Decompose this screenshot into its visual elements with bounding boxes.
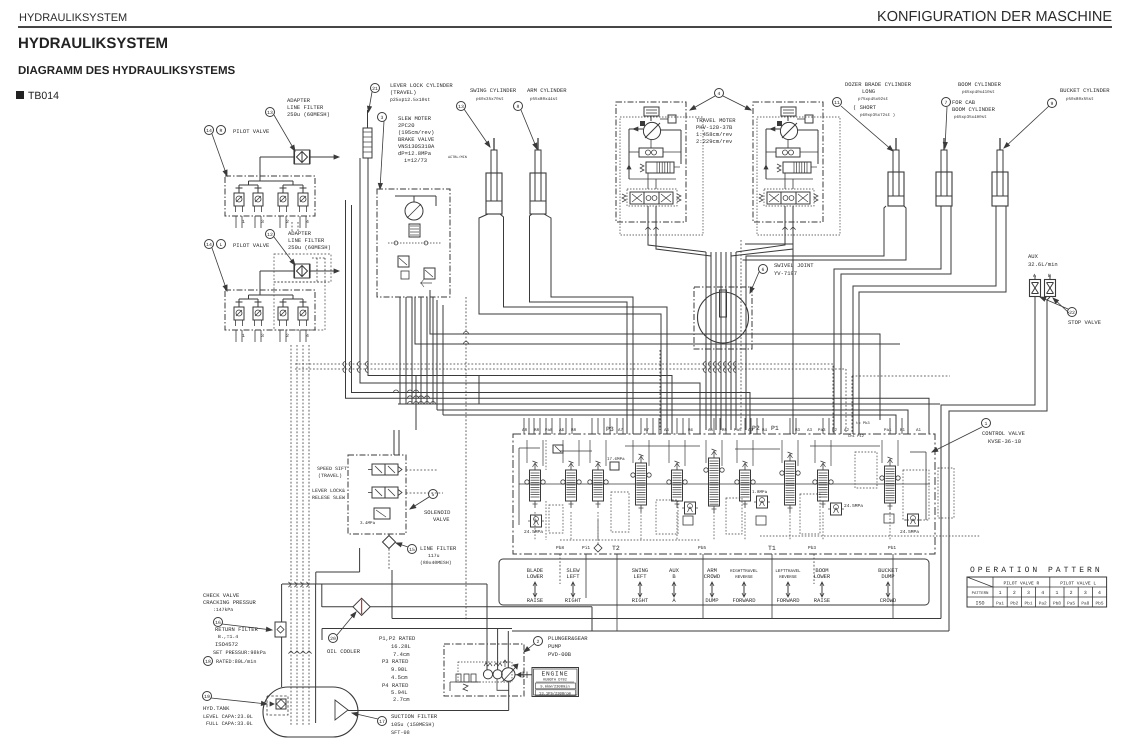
svg-text:(TRAVEL): (TRAVEL)	[390, 89, 416, 96]
svg-text:p55x80x44st: p55x80x44st	[530, 97, 558, 102]
svg-text:Pb3: Pb3	[808, 545, 816, 551]
svg-text:2.7cm: 2.7cm	[393, 696, 410, 703]
svg-text:i=12/73: i=12/73	[404, 157, 427, 164]
svg-text:DOZER BRADE CYLINDER: DOZER BRADE CYLINDER	[845, 81, 912, 88]
svg-text:ADAPTER: ADAPTER	[288, 230, 312, 237]
svg-text:(195cm/rev): (195cm/rev)	[398, 129, 434, 136]
svg-text:T1: T1	[768, 545, 776, 552]
svg-text:Pa8: Pa8	[1081, 601, 1089, 606]
svg-text:BRAKE VALVE: BRAKE VALVE	[398, 136, 435, 143]
svg-text:24.5MPa: 24.5MPa	[900, 529, 919, 535]
svg-text:32.6L/min: 32.6L/min	[1028, 261, 1058, 268]
svg-text:1: 1	[1055, 590, 1058, 596]
svg-text:13: 13	[458, 104, 464, 110]
svg-text:p50x80x55st: p50x80x55st	[1066, 97, 1094, 102]
svg-text:RIGHT: RIGHT	[565, 597, 582, 604]
svg-text:to Pb3: to Pb3	[856, 421, 870, 426]
svg-text:STOP VALVE: STOP VALVE	[1068, 319, 1102, 326]
svg-text:Pb8: Pb8	[1053, 600, 1061, 606]
svg-text:Pb8: Pb8	[556, 545, 564, 551]
svg-text:LOWER: LOWER	[527, 573, 544, 580]
svg-text:B: B	[1048, 273, 1051, 279]
svg-text:Ch1 P12: Ch1 P12	[848, 434, 865, 439]
svg-text:ARM CYLINDER: ARM CYLINDER	[527, 87, 567, 94]
svg-text:SFT-08: SFT-08	[391, 730, 410, 736]
svg-text:15: 15	[409, 547, 415, 553]
svg-text:SWIVEL JOINT: SWIVEL JOINT	[774, 262, 814, 269]
svg-text:OPERATION PATTERN: OPERATION PATTERN	[970, 566, 1103, 575]
svg-text:KONFIGURATION DER MASCHINE: KONFIGURATION DER MASCHINE	[877, 9, 1112, 25]
svg-text:p25xp12.5x10st: p25xp12.5x10st	[390, 97, 430, 103]
svg-text:Pi1: Pi1	[582, 545, 590, 551]
svg-text:CHECK VALVE: CHECK VALVE	[203, 592, 240, 599]
svg-text:T2: T2	[612, 545, 620, 552]
svg-text:LOWER: LOWER	[814, 573, 831, 580]
svg-text:250u (60MESH): 250u (60MESH)	[288, 244, 331, 251]
svg-text:17.6MPa: 17.6MPa	[607, 457, 625, 462]
svg-text:2:229cm/rev: 2:229cm/rev	[696, 138, 733, 145]
svg-text:Pa1: Pa1	[996, 601, 1004, 606]
svg-text:ISO: ISO	[975, 600, 984, 606]
svg-text:SWING CYLINDER: SWING CYLINDER	[470, 87, 517, 94]
svg-text:p75xp45x92st: p75xp45x92st	[858, 97, 889, 102]
svg-text:Pb5: Pb5	[1096, 600, 1104, 606]
svg-text:4: 4	[306, 333, 309, 339]
svg-text:7.4cm: 7.4cm	[393, 651, 410, 658]
svg-text:9.90L: 9.90L	[391, 666, 408, 673]
svg-text:19: 19	[204, 694, 210, 700]
svg-text:4: 4	[718, 91, 721, 97]
svg-text:LEFT: LEFT	[566, 573, 580, 580]
svg-text:HYDRAULIKSYSTEM: HYDRAULIKSYSTEM	[18, 35, 168, 52]
svg-text:1: 1	[985, 421, 988, 427]
svg-text:20: 20	[330, 636, 336, 642]
svg-text::147kPa: :147kPa	[213, 607, 233, 613]
svg-text:LINE FILTER: LINE FILTER	[288, 237, 325, 244]
svg-text:CROWD: CROWD	[704, 573, 721, 580]
svg-text:2: 2	[537, 639, 540, 645]
svg-text:RAISE: RAISE	[527, 597, 544, 604]
svg-text:DUMP: DUMP	[705, 597, 718, 604]
svg-text:B8: B8	[534, 428, 540, 433]
svg-text:FOR CAB: FOR CAB	[952, 99, 976, 106]
svg-text:1: 1	[242, 333, 245, 339]
svg-text:PUMP: PUMP	[548, 643, 561, 650]
svg-text:ADAPTER: ADAPTER	[287, 97, 311, 104]
svg-text:ACTBL/MIN: ACTBL/MIN	[448, 155, 467, 160]
svg-text:p65xp35x490st: p65xp35x490st	[954, 115, 987, 120]
svg-text:13.1PS/2300rpm: 13.1PS/2300rpm	[539, 691, 572, 696]
svg-text:OIL COOLER: OIL COOLER	[327, 648, 361, 655]
svg-text:B5: B5	[722, 428, 728, 433]
svg-text:KVSE-36-10: KVSE-36-10	[988, 438, 1021, 445]
svg-text:(TRAVEL): (TRAVEL)	[318, 473, 342, 479]
svg-text:A: A	[1033, 273, 1036, 279]
svg-text:BOOM CYLINDER: BOOM CYLINDER	[952, 106, 996, 113]
svg-text:p60x35x70st: p60x35x70st	[476, 97, 504, 102]
svg-text:SPEED SIFT: SPEED SIFT	[317, 466, 347, 472]
svg-text:p65xp40x410st: p65xp40x410st	[962, 90, 995, 95]
svg-text:FORWARD: FORWARD	[732, 597, 756, 604]
svg-text:LEVEL CAPA:23.0L: LEVEL CAPA:23.0L	[203, 714, 253, 720]
svg-text:7: 7	[945, 100, 948, 106]
svg-text:Pa2: Pa2	[1039, 601, 1047, 606]
svg-text:24.5MPa: 24.5MPa	[844, 503, 863, 509]
svg-text:17: 17	[379, 719, 385, 725]
svg-text:PILOT VALVE: PILOT VALVE	[233, 242, 270, 249]
svg-text:YV-7197: YV-7197	[774, 270, 797, 277]
svg-text:PHV-120-37B: PHV-120-37B	[696, 124, 733, 131]
svg-text:VNS130S310A: VNS130S310A	[398, 143, 435, 150]
svg-text:CONTROL VALVE: CONTROL VALVE	[982, 430, 1026, 437]
svg-text:RATED:80L/min: RATED:80L/min	[216, 659, 256, 665]
svg-text:3: 3	[261, 219, 264, 225]
svg-text:2PC20: 2PC20	[398, 122, 415, 129]
svg-text:A2: A2	[844, 428, 850, 433]
svg-text:5.94L: 5.94L	[391, 689, 408, 696]
svg-text:REVERSE: REVERSE	[779, 575, 797, 580]
svg-text:RIGHTTRAVEL: RIGHTTRAVEL	[730, 569, 758, 574]
svg-text:(80x40MESH): (80x40MESH)	[420, 560, 452, 566]
svg-text:A8: A8	[522, 428, 528, 433]
svg-text:REVERSE: REVERSE	[735, 575, 753, 580]
svg-text:ISO4572: ISO4572	[215, 641, 238, 648]
svg-text:1: 1	[242, 219, 245, 225]
svg-text:Pa3: Pa3	[818, 428, 826, 433]
svg-text:3.4MPa: 3.4MPa	[360, 521, 376, 526]
svg-text:18: 18	[205, 659, 211, 665]
svg-text:VALVE: VALVE	[433, 516, 450, 523]
svg-text:LINE FILTER: LINE FILTER	[287, 104, 324, 111]
svg-text:LEFT: LEFT	[633, 573, 647, 580]
svg-text:4.5cm: 4.5cm	[391, 674, 408, 681]
svg-text:RAISE: RAISE	[814, 597, 831, 604]
svg-text:3: 3	[381, 115, 384, 121]
svg-text:Pb1: Pb1	[1025, 600, 1033, 606]
svg-text:TB014: TB014	[28, 90, 59, 102]
svg-text:Pa5: Pa5	[1067, 601, 1075, 606]
svg-text:14: 14	[206, 242, 212, 248]
svg-text:Pb1: Pb1	[888, 545, 896, 551]
svg-text:117u: 117u	[428, 553, 440, 559]
svg-text:2: 2	[1070, 590, 1073, 596]
svg-text:Pb2: Pb2	[1010, 600, 1018, 606]
svg-text:A1: A1	[916, 428, 922, 433]
svg-text:Pa1: Pa1	[884, 428, 892, 433]
svg-text:( SHORT: ( SHORT	[853, 104, 877, 111]
svg-text:LEVER LOCK CYLINDER: LEVER LOCK CYLINDER	[390, 82, 453, 89]
svg-text:LONG: LONG	[862, 88, 875, 95]
svg-text:1: 1	[999, 590, 1002, 596]
svg-text:2: 2	[286, 219, 289, 225]
svg-text:SET PRESSUR:98kPa: SET PRESSUR:98kPa	[213, 650, 266, 656]
svg-text:1.8MPa: 1.8MPa	[752, 490, 768, 495]
svg-text:dP=12.8MPa: dP=12.8MPa	[398, 150, 432, 157]
svg-text:P4 RATED: P4 RATED	[382, 682, 409, 689]
svg-text:1:458cm/rev: 1:458cm/rev	[696, 131, 733, 138]
svg-text:FORWARD: FORWARD	[776, 597, 800, 604]
svg-text:4: 4	[1041, 590, 1044, 596]
svg-text:4: 4	[306, 219, 309, 225]
svg-text:PATTERN: PATTERN	[972, 591, 989, 596]
svg-text:CRACKING PRESSUR: CRACKING PRESSUR	[203, 599, 257, 606]
svg-text:LINE FILTER: LINE FILTER	[420, 545, 457, 552]
svg-text:24.5MPa: 24.5MPa	[524, 529, 543, 535]
svg-text:22: 22	[1069, 310, 1075, 316]
svg-text:21: 21	[372, 86, 378, 92]
svg-text:3: 3	[1027, 590, 1030, 596]
svg-text:P3 RATED: P3 RATED	[382, 658, 409, 665]
svg-text:TRAVEL MOTER: TRAVEL MOTER	[696, 117, 736, 124]
svg-text:SOLENOID: SOLENOID	[424, 509, 451, 516]
svg-text:ENGINE: ENGINE	[541, 671, 568, 678]
svg-text:PVD-00B: PVD-00B	[548, 651, 572, 658]
svg-text:CROWD: CROWD	[880, 597, 897, 604]
svg-text:BUCKET CYLINDER: BUCKET CYLINDER	[1060, 87, 1110, 94]
svg-text:3: 3	[261, 333, 264, 339]
svg-text:FULL CAPA:33.0L: FULL CAPA:33.0L	[206, 721, 253, 727]
svg-text:PILOT VALVE: PILOT VALVE	[233, 128, 270, 135]
svg-text:250u (60MESH): 250u (60MESH)	[287, 111, 330, 118]
svg-text:P1: P1	[771, 425, 779, 432]
svg-text:9.6kW/2300min: 9.6kW/2300min	[540, 685, 570, 690]
svg-text:PILOT VALVE R: PILOT VALVE R	[1003, 581, 1039, 587]
svg-text:PLUNGER&GEAR: PLUNGER&GEAR	[548, 635, 588, 642]
svg-text:HYD.TANK: HYD.TANK	[203, 705, 230, 712]
svg-text:SUCTION FILTER: SUCTION FILTER	[391, 713, 438, 720]
svg-text:LEVER LOCK&: LEVER LOCK&	[312, 488, 345, 494]
svg-text:HYDRAULIKSYSTEM: HYDRAULIKSYSTEM	[19, 12, 127, 24]
svg-text:16: 16	[215, 620, 221, 626]
svg-text:6: 6	[762, 267, 765, 273]
svg-text:14: 14	[206, 128, 212, 134]
svg-text:AUX: AUX	[1028, 253, 1039, 260]
svg-text:2: 2	[1013, 590, 1016, 596]
svg-text:P2: P2	[752, 425, 760, 432]
svg-text:P1,P2 RATED: P1,P2 RATED	[379, 635, 416, 642]
svg-text:105u (150MESH): 105u (150MESH)	[391, 722, 435, 728]
svg-text:3: 3	[1084, 590, 1087, 596]
svg-text:16.28L: 16.28L	[391, 643, 411, 650]
svg-text:12: 12	[267, 232, 273, 238]
svg-text:Pb5: Pb5	[698, 545, 706, 551]
svg-text:B.,=1.4: B.,=1.4	[218, 634, 238, 640]
svg-text:B1: B1	[900, 428, 906, 433]
svg-text:4: 4	[1098, 590, 1101, 596]
svg-text:2: 2	[286, 333, 289, 339]
svg-text:8: 8	[517, 104, 520, 110]
svg-text:SLEW MOTER: SLEW MOTER	[398, 115, 432, 122]
svg-text:R: R	[220, 128, 223, 134]
svg-text:BOOM CYLINDER: BOOM CYLINDER	[958, 81, 1002, 88]
svg-text:9: 9	[1051, 101, 1054, 107]
svg-text:RELESE SLEW: RELESE SLEW	[312, 495, 345, 501]
svg-text:RETURN FILTER: RETURN FILTER	[215, 626, 259, 633]
svg-text:L: L	[220, 242, 223, 248]
svg-text:A3: A3	[807, 428, 813, 433]
svg-text:PILOT VALVE L: PILOT VALVE L	[1060, 581, 1096, 587]
svg-text:LEFTTRAVEL: LEFTTRAVEL	[775, 569, 801, 574]
svg-text:11: 11	[834, 100, 840, 106]
svg-text:RIGHT: RIGHT	[632, 597, 649, 604]
svg-text:DIAGRAMM DES HYDRAULIKSYSTEMS: DIAGRAMM DES HYDRAULIKSYSTEMS	[18, 65, 236, 77]
svg-text:13: 13	[267, 110, 273, 116]
